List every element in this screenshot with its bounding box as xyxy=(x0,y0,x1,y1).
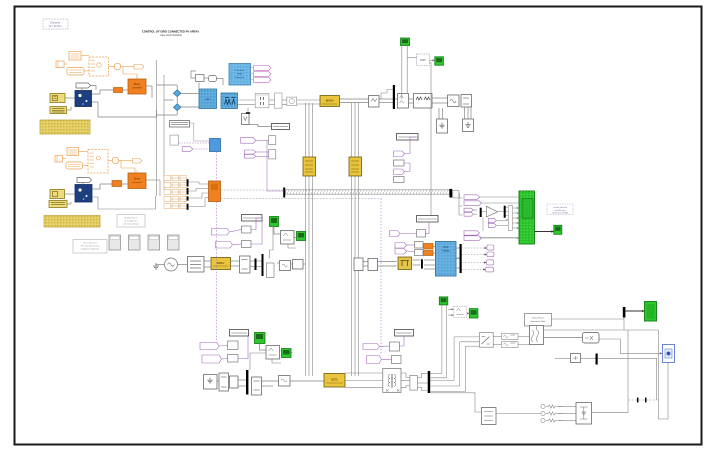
svg-text:Harmonic Filter: Harmonic Filter xyxy=(531,320,546,323)
svg-text:(case study Module2): (case study Module2) xyxy=(160,34,182,37)
svg-text:B600V: B600V xyxy=(326,99,334,103)
svg-text:Generator: Generator xyxy=(235,76,244,79)
svg-text:values (s) change: values (s) change xyxy=(123,224,140,226)
svg-text:Discrete: Discrete xyxy=(236,69,245,72)
svg-text:Boost: Boost xyxy=(134,178,140,181)
svg-text:Wind: Wind xyxy=(443,247,449,249)
svg-text:Three-Phase: Three-Phase xyxy=(532,317,545,320)
svg-text:PV array block 1mea: PV array block 1mea xyxy=(81,246,100,248)
svg-text:control Statcold: control Statcold xyxy=(553,206,567,209)
svg-text:PWM: PWM xyxy=(237,74,243,76)
svg-text:IGBT: IGBT xyxy=(205,99,211,101)
svg-text:RMS: RMS xyxy=(420,59,426,62)
svg-text:to change the i: to change the i xyxy=(124,220,138,223)
svg-text:At what time is: At what time is xyxy=(124,217,137,220)
svg-text:B25kV: B25kV xyxy=(217,261,225,265)
svg-text:Discrete,: Discrete, xyxy=(50,20,61,24)
svg-text:(170 14b 3.3 MVA): (170 14b 3.3 MVA) xyxy=(552,212,568,215)
svg-text:Turbine: Turbine xyxy=(442,250,450,253)
svg-text:converter2: converter2 xyxy=(132,181,143,184)
svg-text:These boxes w: These boxes w xyxy=(83,243,97,245)
svg-text:B575: B575 xyxy=(331,378,338,382)
svg-text:Ts = 5e-05 s.: Ts = 5e-05 s. xyxy=(49,25,63,28)
svg-text:converter: converter xyxy=(132,87,142,90)
svg-text:CONTROL OF GRID CONNECTED PV A: CONTROL OF GRID CONNECTED PV ARRAY xyxy=(142,30,199,34)
svg-text:irradiance temperatu: irradiance temperatu xyxy=(81,248,99,251)
